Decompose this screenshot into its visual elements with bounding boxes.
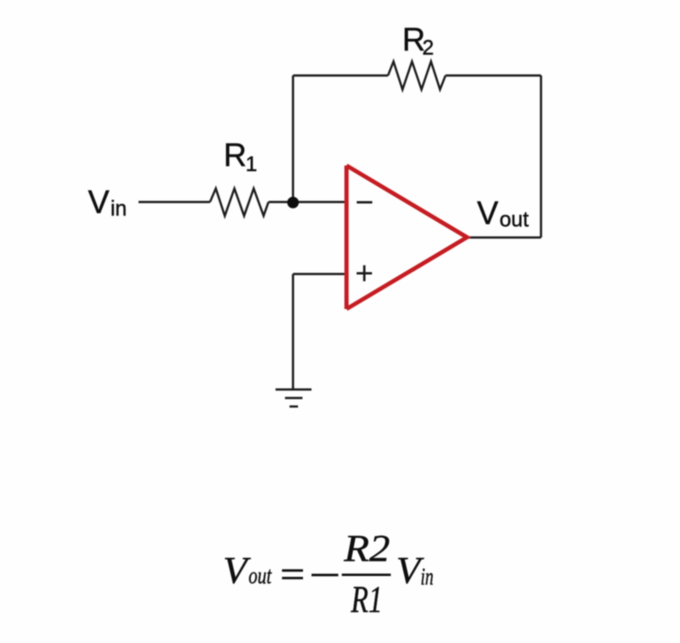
svg-text:R2: R2 xyxy=(343,528,390,570)
svg-text:V: V xyxy=(477,195,499,231)
svg-text:V: V xyxy=(223,550,251,592)
svg-text:out: out xyxy=(249,564,273,590)
svg-text:1: 1 xyxy=(246,153,258,176)
svg-text:in: in xyxy=(111,198,127,221)
svg-text:R1: R1 xyxy=(350,579,382,621)
svg-text:2: 2 xyxy=(422,37,434,60)
svg-text:out: out xyxy=(500,209,529,232)
svg-text:in: in xyxy=(421,565,434,591)
svg-text:R: R xyxy=(224,137,247,173)
svg-text:V: V xyxy=(88,184,110,220)
